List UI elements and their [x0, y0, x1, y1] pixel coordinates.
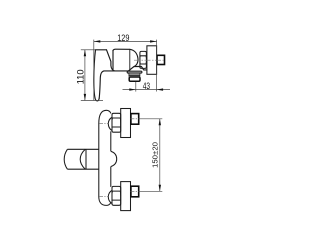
svg-text:150±20: 150±20 — [151, 142, 160, 168]
svg-text:43: 43 — [143, 81, 150, 91]
svg-text:129: 129 — [117, 33, 129, 43]
svg-text:110: 110 — [76, 69, 86, 84]
